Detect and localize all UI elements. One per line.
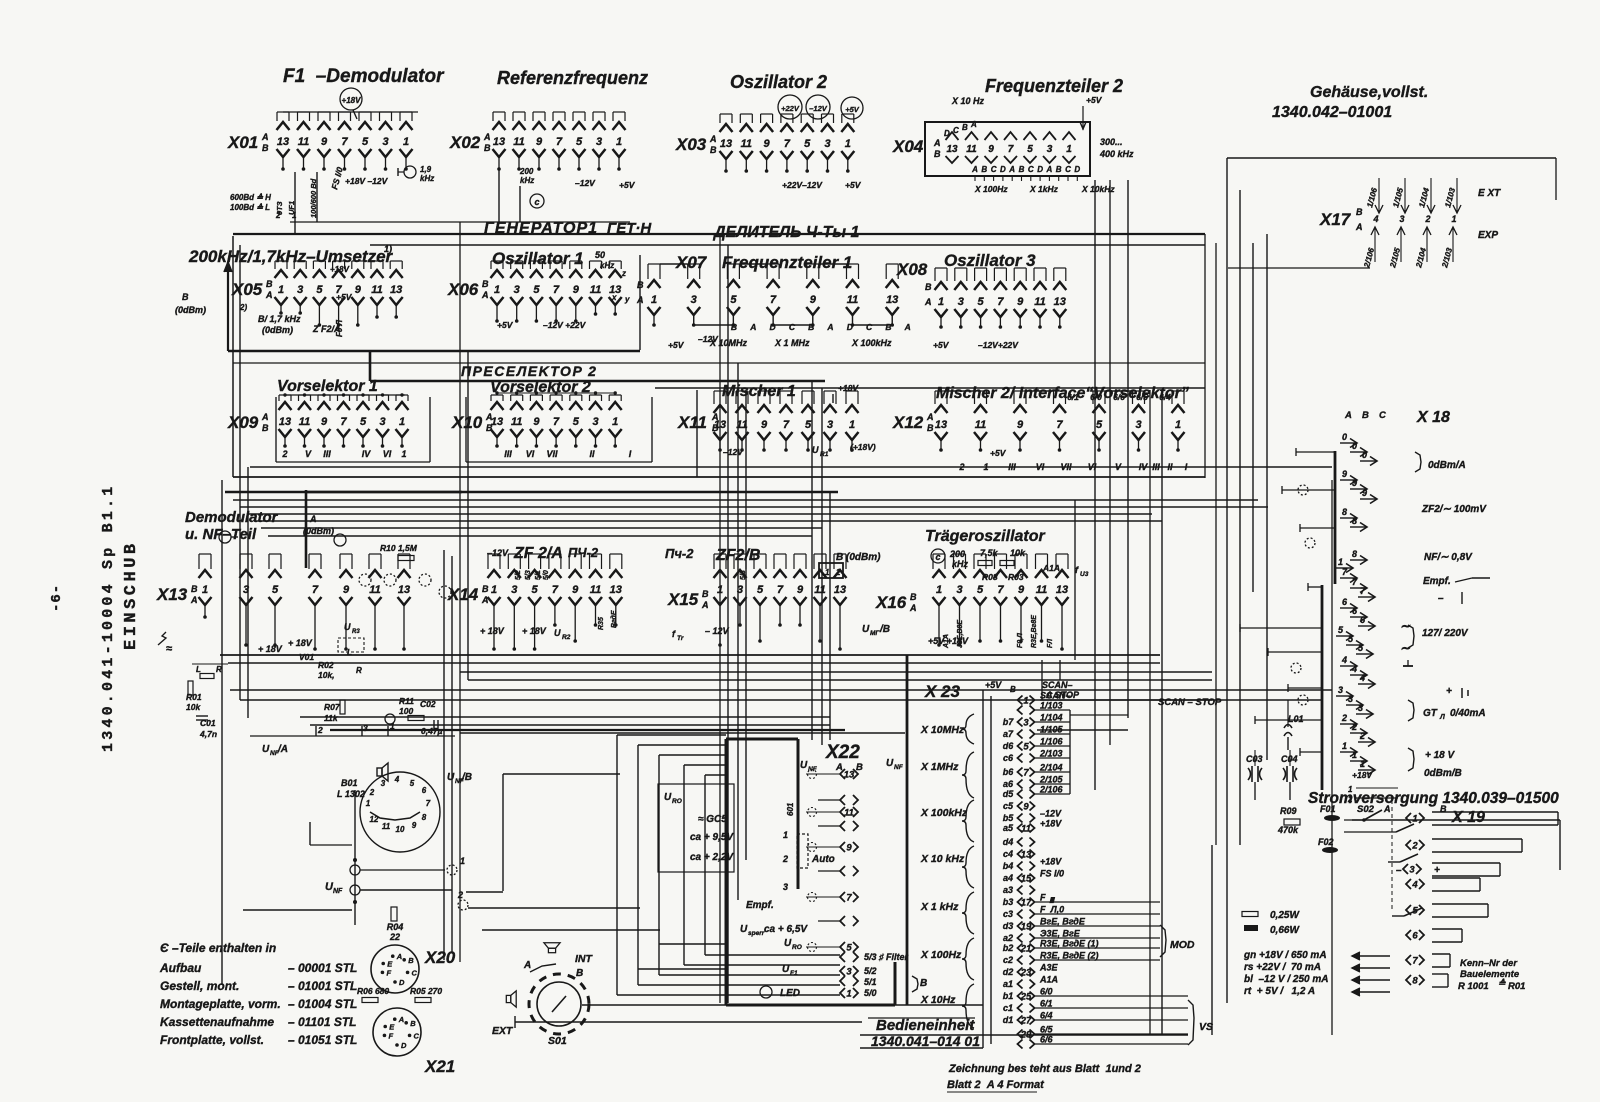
svg-text:A: A xyxy=(826,322,833,332)
connector X22 labels xyxy=(740,770,927,1000)
svg-text:A1A: A1A xyxy=(1039,975,1058,985)
title F1-Demodulator xyxy=(283,66,445,87)
svg-text:2/105: 2/105 xyxy=(1039,775,1064,785)
svg-text:–12V +22V: –12V +22V xyxy=(543,320,587,330)
svg-text:D: D xyxy=(1037,165,1043,174)
svg-text:3: 3 xyxy=(514,284,520,296)
connector X03 xyxy=(675,95,863,190)
svg-text:A: A xyxy=(396,952,402,961)
svg-text:c4: c4 xyxy=(1003,849,1013,859)
svg-text:A: A xyxy=(1383,804,1391,814)
svg-text:IV: IV xyxy=(362,449,372,459)
svg-text:A: A xyxy=(1344,410,1352,421)
svg-text:c3: c3 xyxy=(1003,909,1013,919)
svg-text:6/1: 6/1 xyxy=(1067,392,1079,402)
svg-text:– 12V: – 12V xyxy=(705,626,730,636)
svg-text:kHz: kHz xyxy=(952,559,969,569)
switch S01 xyxy=(492,943,594,1047)
svg-text:1: 1 xyxy=(399,416,405,428)
svg-text:F: F xyxy=(388,1031,393,1040)
svg-text:4: 4 xyxy=(1372,214,1378,224)
svg-text:7: 7 xyxy=(770,294,777,306)
svg-text:B: B xyxy=(934,149,941,159)
svg-text:B (0dBm): B (0dBm) xyxy=(836,552,881,563)
svg-text:bl –12 V / 250 mA: bl –12 V / 250 mA xyxy=(1244,974,1329,985)
svg-text:NF/∼ 0,8V: NF/∼ 0,8V xyxy=(1424,552,1473,563)
svg-text:X05: X05 xyxy=(231,280,263,299)
title Oszillator 1 xyxy=(492,249,584,268)
svg-text:8: 8 xyxy=(1342,507,1347,517)
svg-text:d6: d6 xyxy=(1003,741,1014,751)
svg-text:FS I/0: FS I/0 xyxy=(1040,869,1064,879)
title Gehaeuse vollst xyxy=(1272,84,1428,121)
svg-text:1: 1 xyxy=(936,584,942,596)
svg-text:U: U xyxy=(862,624,870,635)
svg-text:– 01004 STL: – 01004 STL xyxy=(288,997,357,1011)
svg-text:B: B xyxy=(1356,207,1363,217)
svg-text:13: 13 xyxy=(610,584,622,596)
svg-text:+5V: +5V xyxy=(990,448,1007,458)
svg-text:1340.041-10004 Sp B1.1: 1340.041-10004 Sp B1.1 xyxy=(100,484,117,752)
svg-text:11: 11 xyxy=(299,416,310,428)
svg-text:5: 5 xyxy=(360,416,367,428)
svg-text:8: 8 xyxy=(1412,976,1418,987)
svg-text:5: 5 xyxy=(804,138,811,150)
svg-text:A1A: A1A xyxy=(943,634,950,649)
connector X01 sublabels xyxy=(230,165,434,220)
svg-text:6/4: 6/4 xyxy=(1040,1011,1053,1021)
connector X18 labels xyxy=(1400,452,1490,779)
svg-text:7: 7 xyxy=(784,138,791,150)
svg-text:B: B xyxy=(484,143,491,153)
svg-text:2: 2 xyxy=(1424,214,1430,224)
svg-text:MOD: MOD xyxy=(1170,939,1195,951)
svg-text:X10: X10 xyxy=(451,413,483,432)
svg-text:+: + xyxy=(1446,686,1452,697)
svg-text:+ 18 V: + 18 V xyxy=(1425,750,1456,761)
svg-text:A STOP: A STOP xyxy=(1045,690,1080,700)
svg-text:10: 10 xyxy=(396,825,405,834)
svg-text:6/0: 6/0 xyxy=(1040,987,1053,997)
svg-text:5: 5 xyxy=(805,419,812,431)
svg-text:7: 7 xyxy=(783,419,790,431)
svg-text:3: 3 xyxy=(592,416,598,428)
svg-text:B: B xyxy=(262,143,269,153)
svg-text:A: A xyxy=(398,1015,404,1024)
svg-text:9: 9 xyxy=(536,136,543,148)
svg-text:+ 18V: + 18V xyxy=(480,626,505,636)
connector X09 xyxy=(227,393,409,459)
svg-text:L: L xyxy=(196,665,201,674)
title Vorselektor 2 xyxy=(490,379,591,396)
title Stromversorgung xyxy=(1308,790,1559,807)
svg-text:B: B xyxy=(1019,165,1025,174)
svg-text:U: U xyxy=(886,758,894,769)
svg-text:R35: R35 xyxy=(598,617,605,630)
svg-text:3: 3 xyxy=(783,882,788,892)
svg-text:Frequenzteiler 2: Frequenzteiler 2 xyxy=(985,76,1123,96)
svg-text:1: 1 xyxy=(1066,144,1072,155)
svg-text:X07: X07 xyxy=(675,253,708,272)
svg-text:R03: R03 xyxy=(1008,572,1024,582)
svg-text:EINSCHUB: EINSCHUB xyxy=(122,540,141,650)
svg-text:5: 5 xyxy=(730,294,737,306)
svg-text:3: 3 xyxy=(381,779,386,788)
svg-text:X 1kHz: X 1kHz xyxy=(1029,184,1059,194)
svg-text:13: 13 xyxy=(279,416,291,428)
svg-text:B: B xyxy=(482,279,489,289)
svg-text:b4: b4 xyxy=(1003,861,1014,871)
svg-text:5: 5 xyxy=(757,584,764,596)
svg-text:200: 200 xyxy=(519,167,534,176)
svg-text:200kHz/1,7kHz–Umsetzer: 200kHz/1,7kHz–Umsetzer xyxy=(188,247,394,266)
svg-text:X15: X15 xyxy=(667,590,699,609)
svg-text:X 18: X 18 xyxy=(1416,409,1450,426)
svg-text:5/2: 5/2 xyxy=(515,570,522,580)
svg-text:c6: c6 xyxy=(1003,753,1014,763)
svg-text:9: 9 xyxy=(1018,584,1025,596)
svg-text:b3: b3 xyxy=(1003,897,1014,907)
svg-text:L01: L01 xyxy=(1288,714,1304,724)
svg-text:5/1: 5/1 xyxy=(864,977,877,987)
svg-text:+5V: +5V xyxy=(1086,95,1103,105)
svg-text:8: 8 xyxy=(1352,516,1357,526)
svg-text:27: 27 xyxy=(1020,1016,1032,1027)
svg-text:D: D xyxy=(401,1041,407,1050)
svg-text:B: B xyxy=(410,1019,416,1028)
svg-text:6/6: 6/6 xyxy=(1113,392,1125,402)
svg-text:E XT: E XT xyxy=(1478,188,1501,199)
svg-text:11: 11 xyxy=(590,584,601,596)
svg-text:Trägeroszillator: Trägeroszillator xyxy=(925,528,1046,545)
svg-text:3: 3 xyxy=(824,138,830,150)
svg-text:2/106: 2/106 xyxy=(1039,785,1064,795)
svg-text:SCAN – STOP: SCAN – STOP xyxy=(1158,697,1222,708)
svg-text:X16: X16 xyxy=(875,593,907,612)
svg-text:3: 3 xyxy=(1399,214,1404,224)
svg-text:0: 0 xyxy=(1352,441,1357,451)
svg-text:1: 1 xyxy=(849,419,855,431)
svg-text:5: 5 xyxy=(532,584,539,596)
svg-text:5: 5 xyxy=(846,943,852,954)
svg-text:Frontplatte, vollst.: Frontplatte, vollst. xyxy=(160,1033,264,1047)
svg-text:c: c xyxy=(935,552,940,562)
svg-text:A3E: A3E xyxy=(1039,963,1059,973)
title Frequenzteiler 1 xyxy=(722,253,852,272)
svg-text:R08: R08 xyxy=(982,572,998,582)
svg-text:2: 2 xyxy=(1347,795,1353,804)
power parts L01 C03 C04 R09 F01 F02 S02 xyxy=(1246,700,1447,916)
svg-text:LED: LED xyxy=(780,988,800,999)
svg-text:5: 5 xyxy=(272,584,279,596)
svg-text:A: A xyxy=(701,600,709,610)
svg-text:1: 1 xyxy=(491,584,497,596)
svg-text:7: 7 xyxy=(846,893,852,904)
svg-text:+ 18V: + 18V xyxy=(522,626,547,636)
svg-text:+18V: +18V xyxy=(342,96,362,105)
svg-text:S01: S01 xyxy=(548,1035,567,1047)
svg-text:11: 11 xyxy=(847,294,858,306)
svg-text:127/ 220V: 127/ 220V xyxy=(1422,628,1469,639)
title Delitel xyxy=(712,224,859,241)
svg-text:1,9: 1,9 xyxy=(420,165,432,174)
svg-text:/A: /A xyxy=(277,744,288,755)
svg-text:2/104: 2/104 xyxy=(1039,763,1063,773)
svg-text:1: 1 xyxy=(1023,696,1028,707)
svg-text:22: 22 xyxy=(389,932,400,942)
title Oszillator 2 xyxy=(730,72,827,92)
svg-text:7: 7 xyxy=(997,584,1004,596)
svg-text:3: 3 xyxy=(1409,865,1415,876)
svg-text:D: D xyxy=(399,978,405,987)
connector X10 xyxy=(451,391,632,459)
svg-text:C: C xyxy=(1028,165,1034,174)
svg-text:A: A xyxy=(483,132,491,142)
svg-text:b7: b7 xyxy=(1003,717,1014,727)
svg-text:B: B xyxy=(710,145,717,155)
connector X02 xyxy=(449,112,626,171)
svg-text:Montageplatte, vorm.: Montageplatte, vorm. xyxy=(160,997,281,1011)
svg-text:EXT: EXT xyxy=(492,1025,514,1037)
svg-text:10k,: 10k, xyxy=(318,670,335,680)
svg-text:4,7n: 4,7n xyxy=(199,729,217,739)
svg-text:R04: R04 xyxy=(387,922,404,932)
svg-text:C: C xyxy=(953,126,959,135)
svg-text:+5V: +5V xyxy=(619,180,636,190)
svg-text:1: 1 xyxy=(612,416,618,428)
svg-text:1: 1 xyxy=(1451,214,1456,224)
svg-text:c1: c1 xyxy=(1003,1003,1013,1013)
svg-text:13: 13 xyxy=(277,136,289,148)
svg-text:9: 9 xyxy=(846,843,852,854)
svg-text:– 00001 STL: – 00001 STL xyxy=(288,961,357,975)
svg-text:+18V: +18V xyxy=(330,265,350,274)
svg-text:a7: a7 xyxy=(1003,729,1014,739)
title Traegeroszillator xyxy=(925,528,1046,545)
svg-text:1: 1 xyxy=(1338,557,1343,567)
svg-text:x: x xyxy=(611,293,617,302)
svg-text:/B: /B xyxy=(461,772,472,783)
svg-text:d1: d1 xyxy=(1003,1015,1014,1025)
svg-text:5/0: 5/0 xyxy=(543,570,550,580)
svg-text:X02: X02 xyxy=(449,133,481,152)
svg-text:9: 9 xyxy=(797,584,804,596)
svg-text:5: 5 xyxy=(533,284,540,296)
svg-text:– 01001 STL: – 01001 STL xyxy=(288,979,357,993)
svg-text:a5: a5 xyxy=(1003,823,1014,833)
svg-text:11: 11 xyxy=(382,822,391,831)
svg-text:B: B xyxy=(191,584,198,594)
left text 1340.041-10004 xyxy=(100,484,117,752)
svg-text:A: A xyxy=(190,595,198,605)
svg-text:B: B xyxy=(920,978,927,989)
svg-text:11: 11 xyxy=(590,284,601,296)
svg-text:– 01051 STL: – 01051 STL xyxy=(288,1033,357,1047)
legend URO xyxy=(658,784,734,872)
svg-text:9: 9 xyxy=(761,419,768,431)
svg-text:X04: X04 xyxy=(892,137,924,156)
svg-text:B: B xyxy=(910,592,917,602)
svg-text:7: 7 xyxy=(1412,956,1418,967)
svg-text:5: 5 xyxy=(1096,419,1103,431)
svg-text:6/6: 6/6 xyxy=(1040,1035,1054,1045)
svg-text:13: 13 xyxy=(1056,584,1068,596)
svg-text:0,25W: 0,25W xyxy=(1270,910,1300,921)
svg-text:3: 3 xyxy=(379,416,385,428)
connector X01 xyxy=(227,88,413,171)
left text EINSCHUB xyxy=(122,540,141,650)
svg-text:Є –Teile enthalten in: Є –Teile enthalten in xyxy=(160,941,276,955)
svg-text:4: 4 xyxy=(394,775,400,784)
svg-text:–12V: –12V xyxy=(723,447,744,457)
svg-text:C: C xyxy=(1379,410,1386,421)
svg-text:kHz: kHz xyxy=(420,174,434,183)
svg-text:C: C xyxy=(991,165,997,174)
svg-text:9: 9 xyxy=(573,284,580,296)
svg-text:Aufbau: Aufbau xyxy=(159,961,202,975)
title 200kHz Umsetzer xyxy=(188,244,394,266)
svg-text:+22V–12V: +22V–12V xyxy=(782,180,823,190)
svg-text:3: 3 xyxy=(596,136,602,148)
svg-text:–12V: –12V xyxy=(809,104,828,113)
svg-text:3: 3 xyxy=(1135,419,1141,431)
svg-text:Э3E, BгE: Э3E, BгE xyxy=(1040,929,1081,939)
svg-text:R02: R02 xyxy=(318,660,334,670)
svg-text:ZF2/∼ 100mV: ZF2/∼ 100mV xyxy=(1421,504,1487,515)
svg-text:/B: /B xyxy=(879,624,890,635)
svg-text:+18V: +18V xyxy=(1040,819,1062,829)
svg-text:6/0: 6/0 xyxy=(1090,392,1102,402)
svg-text:B: B xyxy=(925,282,932,292)
svg-text:6/4: 6/4 xyxy=(1159,392,1171,402)
title Mischer 2 Interface xyxy=(936,385,1189,402)
svg-text:100: 100 xyxy=(399,706,413,716)
svg-text:D: D xyxy=(944,129,950,138)
svg-text:a3: a3 xyxy=(1003,885,1013,895)
svg-text:7,5k: 7,5k xyxy=(980,548,999,558)
svg-text:X17: X17 xyxy=(1319,210,1352,229)
svg-text:11: 11 xyxy=(1034,296,1045,308)
svg-text:C: C xyxy=(866,322,873,332)
svg-text:BгE, BгдE: BгE, BгдE xyxy=(1040,917,1086,927)
svg-text:SCAN–: SCAN– xyxy=(1042,680,1073,690)
connector X15 xyxy=(667,552,890,651)
svg-text:1: 1 xyxy=(825,568,830,577)
svg-text:11k: 11k xyxy=(324,713,339,723)
svg-text:5/2: 5/2 xyxy=(864,966,877,976)
svg-text:13: 13 xyxy=(720,138,732,150)
svg-text:VI: VI xyxy=(526,449,535,459)
svg-text:B01: B01 xyxy=(341,778,358,788)
svg-text:11: 11 xyxy=(1036,584,1047,596)
svg-text:9: 9 xyxy=(988,144,994,155)
svg-text:B: B xyxy=(1056,165,1062,174)
svg-text:9: 9 xyxy=(1017,419,1024,431)
svg-text:1: 1 xyxy=(1360,759,1365,769)
svg-text:5: 5 xyxy=(1027,144,1033,155)
svg-text:9: 9 xyxy=(764,138,771,150)
svg-text:A: A xyxy=(904,322,911,332)
svg-text:II: II xyxy=(589,449,595,459)
svg-text:S02: S02 xyxy=(1357,804,1375,815)
svg-text:11: 11 xyxy=(513,136,524,148)
svg-text:F02: F02 xyxy=(1318,837,1334,847)
wire UNF bus xyxy=(243,790,468,925)
svg-text:d2: d2 xyxy=(1003,967,1014,977)
svg-text:2: 2 xyxy=(1411,841,1418,852)
svg-text:13: 13 xyxy=(844,770,855,781)
svg-text:0dBm/A: 0dBm/A xyxy=(1428,460,1466,471)
svg-text:b1: b1 xyxy=(1003,991,1014,1001)
svg-text:y: y xyxy=(624,295,630,304)
svg-text:5: 5 xyxy=(316,284,323,296)
svg-text:III: III xyxy=(504,449,512,459)
svg-text:5/1: 5/1 xyxy=(535,570,542,580)
svg-text:11: 11 xyxy=(844,808,854,819)
svg-text:2: 2 xyxy=(281,449,287,459)
svg-text:b5: b5 xyxy=(1003,813,1014,823)
X18 left stub wires xyxy=(1240,448,1335,756)
svg-text:B: B xyxy=(702,589,709,599)
svg-text:F01: F01 xyxy=(1320,804,1336,814)
svg-text:u. NF–Teil: u. NF–Teil xyxy=(185,526,257,543)
connector X20 xyxy=(371,907,456,993)
legend power xyxy=(1242,910,1329,997)
svg-text:8: 8 xyxy=(1352,549,1357,559)
svg-text:B: B xyxy=(576,968,583,979)
svg-text:2: 2 xyxy=(317,725,323,735)
svg-text:4: 4 xyxy=(1341,655,1347,665)
svg-text:1: 1 xyxy=(366,799,371,808)
svg-text:2: 2 xyxy=(782,854,788,864)
title ZF2/B xyxy=(665,546,760,564)
svg-text:ПЧ-2: ПЧ-2 xyxy=(568,545,599,560)
svg-text:3: 3 xyxy=(382,136,388,148)
svg-text:U: U xyxy=(740,924,748,935)
svg-text:rs +22V / 70 mA: rs +22V / 70 mA xyxy=(1244,962,1321,973)
svg-text:3: 3 xyxy=(846,967,852,978)
svg-text:3: 3 xyxy=(691,294,697,306)
svg-text:13: 13 xyxy=(1054,296,1066,308)
svg-text:sperr: sperr xyxy=(748,930,765,937)
svg-text:a4: a4 xyxy=(1003,873,1013,883)
svg-text:9: 9 xyxy=(343,584,350,596)
svg-text:5: 5 xyxy=(410,779,415,788)
svg-text:(0dBm): (0dBm) xyxy=(175,305,206,315)
svg-text:X20: X20 xyxy=(424,948,456,967)
svg-text:A: A xyxy=(481,290,489,300)
svg-text:1: 1 xyxy=(845,138,851,150)
svg-text:Stromversorgung 1340.039–01500: Stromversorgung 1340.039–01500 xyxy=(1308,790,1559,807)
svg-text:1/104: 1/104 xyxy=(1040,713,1063,723)
svg-text:7: 7 xyxy=(1008,144,1014,155)
wire arrows left xyxy=(1352,952,1390,996)
svg-text:Zeichnung bes teht aus Blatt: Zeichnung bes teht aus Blatt 1und 2 xyxy=(948,1063,1141,1075)
svg-text:3: 3 xyxy=(1338,685,1343,695)
svg-text:+18V: +18V xyxy=(1040,857,1062,867)
connector X19 xyxy=(1396,809,1485,987)
svg-text:1: 1 xyxy=(846,989,851,1000)
svg-text:X 10 kHz: X 10 kHz xyxy=(920,853,965,865)
connector X22 xyxy=(800,742,904,1000)
svg-text:23: 23 xyxy=(1020,968,1032,979)
svg-text:X 10 Hz: X 10 Hz xyxy=(951,96,985,106)
svg-text:4: 4 xyxy=(1359,673,1365,683)
svg-text:0,66W: 0,66W xyxy=(1270,925,1300,936)
svg-text:≈ GC5: ≈ GC5 xyxy=(698,814,727,825)
svg-text:13: 13 xyxy=(935,419,947,431)
svg-text:A: A xyxy=(261,132,269,142)
